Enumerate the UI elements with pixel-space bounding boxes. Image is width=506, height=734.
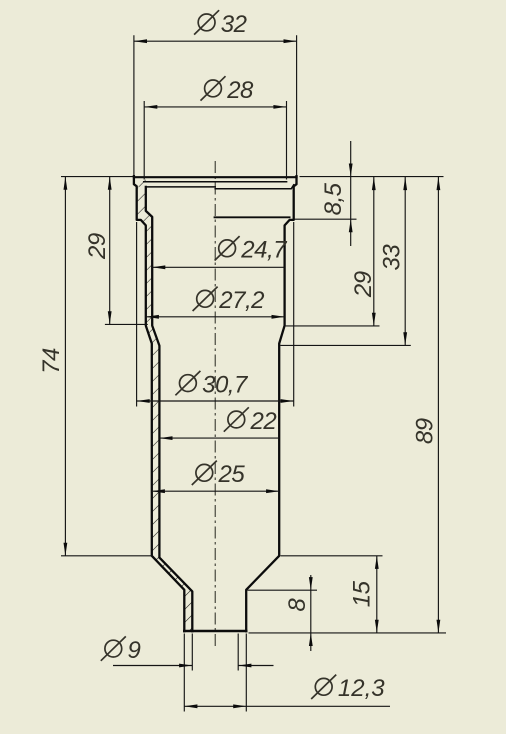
arrow 74 bottom [64,543,68,556]
arrow 15 top [375,556,379,569]
arrow 89 top [437,177,441,190]
arrow Ø32 left [134,39,147,43]
arrow 74 top [64,177,68,190]
label Ø9 [101,636,141,664]
bottom-cone start extension line left [61,555,153,557]
hatching tube and stem wall [146,326,193,631]
dim 29 right line [373,177,375,326]
dim 33 line [404,177,406,345]
dim 8,5 line [350,141,352,246]
right cone-end extension line y=345 [280,344,411,346]
arrow Ø25 right [266,489,279,493]
svg-text:33: 33 [379,244,406,271]
arrow 33 top [403,177,407,190]
arrow 29L bottom [108,311,112,324]
label Ø12,3 [311,675,385,703]
bottom-cone start extension line right [281,555,383,557]
svg-text:28: 28 [226,77,254,104]
svg-text:12,3: 12,3 [338,675,385,702]
skirt shoulder extension line right [295,218,357,220]
dim Ø9 line with outside tails [113,665,192,667]
top face extension line left [61,176,133,178]
dim Ø30,7 extension lines [136,222,138,407]
arrow 29R bottom [372,313,376,326]
label Ø24,7 [215,236,289,264]
stem top extension line right [248,589,318,591]
part top face [134,176,297,178]
dim Ø12,3 line [184,705,390,707]
arrow Ø24,7 left [152,265,165,269]
dim Ø32 line [134,40,297,42]
dim Ø24,7 line [152,266,284,268]
label Ø22 [224,407,277,435]
dim Ø22 line [159,437,279,439]
svg-text:8,5: 8,5 [320,182,347,215]
svg-text:32: 32 [221,11,247,38]
svg-text:29: 29 [84,233,111,260]
label Ø25 [192,461,246,489]
svg-text:89: 89 [412,418,439,444]
mouth chamfer ring 1 [144,181,287,183]
top face extension line right [300,176,444,178]
arrow Ø32 right [284,39,297,43]
dim 89 line [437,177,439,633]
mouth chamfer ring 2 right with hook [215,185,294,189]
arrow Ø22 left [159,436,172,440]
svg-text:9: 9 [128,637,141,664]
dim Ø28 extension lines [143,101,145,180]
arrow Ø27,2 right [272,315,285,319]
arrow Ø25 left [152,489,165,493]
dim Ø27,2 line [146,316,285,318]
arrow Ø30,7 left [137,399,150,403]
hatching skirt and upper wall [137,188,153,326]
arrow 29R top [372,177,376,190]
dim Ø28 line [144,106,286,108]
arrow 8 bottom (outside, points up) [309,633,313,646]
dim Ø30,7 line [137,400,294,402]
hatching rim band [134,178,146,187]
svg-text:27,2: 27,2 [218,287,264,314]
label Ø28 [201,76,255,104]
dim 8 line [310,575,312,651]
dim Ø32 extension lines [133,35,135,175]
interior throat shoulder line right half [215,216,290,218]
svg-text:29: 29 [350,271,377,298]
svg-text:30,7: 30,7 [202,372,249,399]
arrow 33 bottom [403,332,407,345]
dim Ø9 extension lines [191,634,193,671]
svg-text:24,7: 24,7 [240,237,288,264]
arrow 8,5 top (outside, points down) [349,164,353,177]
arrow Ø12,3 right [233,704,246,708]
left shoulder extension line y=324 [105,323,148,325]
dim 29 left line [109,177,111,325]
part bottom face [184,630,246,633]
label Ø30,7 [175,371,249,399]
svg-text:74: 74 [38,348,65,374]
svg-text:8: 8 [284,598,311,612]
svg-text:22: 22 [250,408,277,435]
arrow Ø27,2 left [146,315,159,319]
part right outer profile [246,176,296,631]
bottom extension line right [249,632,447,634]
dim Ø12,3 extension lines [183,634,185,712]
svg-text:25: 25 [218,461,246,488]
arrow Ø9 left (outside, points right) [179,664,192,668]
arrow Ø28 left [144,105,157,109]
dim Ø25 line [152,490,279,492]
label Ø27,2 [193,287,265,315]
dim 15 line [376,556,378,633]
mouth chamfer ring 2 left [146,186,215,188]
svg-text:15: 15 [348,580,375,607]
arrow 8 top (outside, points down) [309,577,313,590]
arrow Ø12,3 left [184,704,197,708]
arrow 29L top [108,177,112,190]
dim 74 line [64,177,66,556]
arrow Ø30,7 right [281,399,294,403]
arrow Ø28 right [273,105,286,109]
centerline [214,161,216,649]
arrow 15 bottom [375,620,379,633]
arrow Ø9 right (outside, points left) [238,664,251,668]
right shoulder extension line y=326 [286,325,380,327]
label Ø32 [194,10,247,38]
arrow 89 bottom [437,620,441,633]
left bore profile (sectioned half) [146,187,193,631]
part left outer profile [134,176,184,631]
arrow 8,5 bottom (outside, points up) [349,219,353,232]
